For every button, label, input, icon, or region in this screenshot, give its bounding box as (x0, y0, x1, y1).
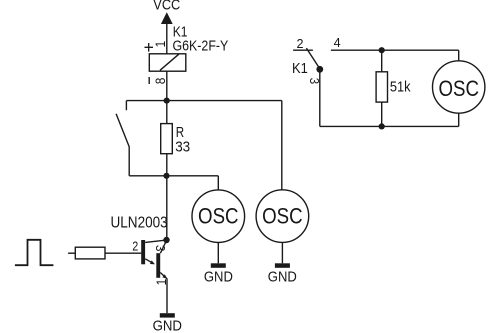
wire switch S1 top stub (125, 101, 127, 111)
resistor R2 body (51k) (376, 72, 387, 102)
node B junction (163, 173, 169, 179)
svg-text:51k: 51k (390, 79, 411, 96)
node D junction (R2 top) (379, 47, 385, 53)
pulse input symbol (15, 240, 54, 265)
wire R1 bottom lead (166, 154, 168, 176)
wire switch S1 bottom (128, 147, 130, 176)
svg-text:OSC: OSC (438, 76, 479, 101)
wire R2 bottom lead (381, 102, 383, 126)
svg-text:GND: GND (153, 318, 183, 333)
svg-text:1: 1 (154, 279, 169, 286)
relay coil K1 box (149, 54, 186, 71)
wire main down to node C (166, 176, 168, 240)
input series resistor body (75, 247, 105, 259)
node E junction (R2 bottom) (379, 123, 385, 129)
svg-text:GND: GND (204, 268, 233, 285)
wire K1 contact 2 stub (293, 49, 313, 51)
switch K1 common dot (316, 66, 323, 73)
wire Q2 collector (160, 241, 166, 254)
ground bar (OSC2) (275, 263, 290, 268)
svg-text:1: 1 (153, 41, 168, 48)
ground bar (Q emitter) (160, 313, 175, 317)
wire horizontal net y=100.6 (126, 100, 281, 102)
switch S1 blade (116, 114, 129, 147)
wire OSC1 gnd lead (217, 243, 219, 264)
wire Q1 collector (145, 240, 166, 242)
Q1 emitter arrow (150, 260, 155, 264)
ground bar (OSC1) (211, 263, 226, 268)
svg-text:2: 2 (297, 36, 304, 51)
svg-text:ULN2003: ULN2003 (111, 215, 168, 232)
wire Q2 emitter (160, 273, 167, 279)
wire R1 top lead (166, 101, 168, 124)
wire R2 top lead (381, 50, 383, 72)
svg-text:K1: K1 (292, 60, 308, 77)
wire VCC shaft (166, 17, 168, 54)
transistor Q2 base bar (156, 253, 160, 278)
wire drop to OSC2 (281, 101, 283, 191)
VCC supply arrow (161, 12, 173, 24)
svg-text:4: 4 (334, 35, 341, 50)
svg-text:OSC: OSC (198, 204, 239, 229)
wire Q base input (105, 252, 141, 254)
wire OSC2 gnd lead (281, 242, 283, 263)
oscillator OSC1 circle (192, 190, 245, 243)
relay coil diagonal (160, 54, 179, 70)
wire drop to OSC1 (217, 176, 219, 190)
wire Q1 emitter (145, 259, 154, 264)
switch K1 blade (306, 48, 319, 69)
transistor Q1 base bar (141, 240, 145, 264)
wire bottom net y=126.4 (320, 125, 459, 127)
svg-text:2: 2 (132, 238, 138, 253)
svg-text:3: 3 (153, 245, 168, 251)
svg-text:3: 3 (307, 78, 322, 84)
wire K1 common down (319, 69, 321, 126)
wire OSC3 top lead (458, 50, 460, 61)
svg-text:VCC: VCC (153, 0, 180, 14)
pin polarity plus (145, 43, 154, 52)
svg-text:GND: GND (268, 268, 297, 285)
oscillator OSC3 circle (433, 61, 485, 113)
svg-text:G6K-2F-Y: G6K-2F-Y (173, 38, 229, 55)
wire horizontal net y=175.8 (129, 175, 218, 177)
node A junction (164, 98, 170, 104)
resistor R1 body (161, 124, 173, 154)
wire coil to node A (166, 71, 168, 100)
oscillator OSC2 circle (256, 190, 309, 243)
wire input left dash (68, 252, 75, 254)
pin polarity minus (rotated) (148, 77, 150, 84)
wire top net y=50.2 (331, 49, 459, 51)
svg-text:8: 8 (152, 78, 168, 85)
node C junction (collectors) (163, 237, 169, 243)
wire emitter to GND (166, 279, 168, 314)
wire OSC3 bottom lead (458, 113, 460, 126)
Q2 emitter arrow (162, 274, 167, 279)
svg-text:33: 33 (175, 139, 190, 156)
svg-text:OSC: OSC (262, 203, 303, 228)
